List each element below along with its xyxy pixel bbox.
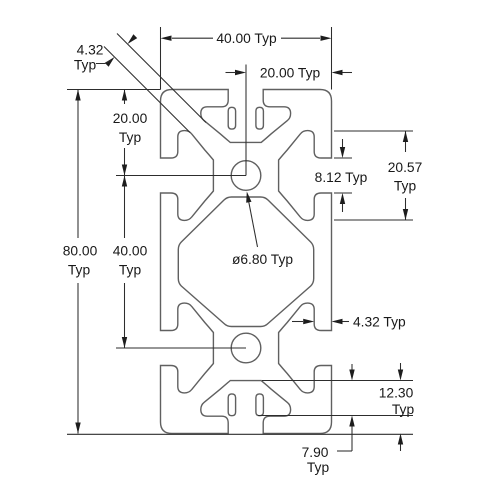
profile outline bbox=[161, 90, 332, 434]
center line bore top horizontal bbox=[116, 175, 246, 177]
svg-text:20.00: 20.00 bbox=[113, 111, 148, 126]
center line vertical bbox=[245, 65, 247, 176]
svg-text:12.30: 12.30 bbox=[379, 386, 414, 401]
slot tooth bottom B bbox=[256, 394, 264, 416]
svg-text:Typ: Typ bbox=[394, 179, 417, 194]
svg-text:4.32 Typ: 4.32 Typ bbox=[353, 314, 406, 329]
center line bore bottom horizontal bbox=[116, 347, 246, 349]
svg-text:Typ: Typ bbox=[68, 263, 91, 278]
dim 7.90 arrow lower bbox=[351, 427, 353, 452]
svg-text:8.12 Typ: 8.12 Typ bbox=[315, 170, 368, 185]
dim 20.00 top arrow left bbox=[235, 70, 246, 75]
dim 40.00 top line left bbox=[172, 37, 213, 39]
dim 40.00 top arrow right bbox=[321, 36, 332, 41]
extension line lip ledge bottom right bbox=[258, 415, 413, 417]
svg-text:Typ: Typ bbox=[74, 58, 97, 73]
bore hole top bbox=[231, 161, 261, 191]
svg-text:40.00: 40.00 bbox=[113, 244, 148, 259]
svg-text:40.00 Typ: 40.00 Typ bbox=[216, 31, 277, 46]
svg-text:80.00: 80.00 bbox=[63, 244, 98, 259]
dim 40.00 top arrow left bbox=[161, 36, 172, 41]
svg-text:7.90: 7.90 bbox=[302, 445, 329, 460]
extension line slot arm top right bbox=[334, 130, 413, 132]
dim 8.12 arrow upper bbox=[342, 139, 344, 147]
svg-text:Typ: Typ bbox=[119, 263, 142, 278]
dim 20.00 left arrow down bbox=[122, 165, 127, 176]
dim 20.57 line upper bbox=[405, 131, 407, 152]
dim 20.00 left arrow up bbox=[122, 90, 127, 101]
dim 12.30 arrow lower bbox=[400, 444, 402, 451]
dim 4.32 top arrow on B bbox=[128, 34, 138, 44]
dim 80.00 arrow down bbox=[75, 423, 80, 434]
dim 20.00 left line upper bbox=[124, 90, 126, 105]
dim 80.00 line lower bbox=[77, 283, 79, 434]
dim 7.90 arrow upper bbox=[351, 364, 353, 370]
extension line top-left corner x bbox=[160, 27, 162, 90]
dim 40.00 left line upper bbox=[124, 176, 126, 239]
svg-text:Typ: Typ bbox=[392, 402, 415, 417]
dim 4.32 right arrow right bbox=[342, 321, 349, 323]
bore hole bottom bbox=[231, 333, 261, 363]
svg-text:Typ: Typ bbox=[307, 460, 330, 475]
extension line bottom edge bbox=[67, 433, 413, 435]
dim 12.30 arrow upper bbox=[400, 363, 402, 370]
dim 4.32 right arrow left bbox=[292, 321, 303, 323]
extension line cavity flat bottom right bbox=[262, 380, 413, 382]
dim 20.00 left line lower bbox=[124, 148, 126, 176]
center cavity bbox=[178, 197, 313, 327]
dim 4.32 top leader bbox=[96, 60, 111, 64]
svg-text:20.00 Typ: 20.00 Typ bbox=[260, 65, 321, 80]
dim 40.00 left arrow up bbox=[122, 176, 127, 187]
extension line web edge A bbox=[104, 47, 190, 133]
svg-text:4.32: 4.32 bbox=[77, 43, 104, 58]
extension line slot opening top right bbox=[334, 157, 352, 159]
dim 20.00 top arrow right bbox=[332, 70, 343, 75]
dim 40.00 left arrow down bbox=[122, 337, 127, 348]
slot tooth top A bbox=[228, 107, 235, 129]
svg-text:20.57: 20.57 bbox=[388, 160, 423, 175]
dim 40.00 top line right bbox=[281, 37, 320, 39]
dim 20.57 line lower bbox=[405, 198, 407, 220]
svg-text:Typ: Typ bbox=[119, 130, 142, 145]
dim 80.00 line upper bbox=[77, 90, 79, 239]
dim 80.00 arrow up bbox=[75, 90, 80, 101]
dim 20.57 arrow up bbox=[403, 131, 408, 142]
dim 7.90 leader bbox=[337, 450, 352, 452]
slot tooth top B bbox=[256, 107, 264, 129]
extension line top edge left bbox=[67, 89, 161, 91]
dim 20.57 arrow down bbox=[403, 209, 408, 220]
dim 8.12 arrow lower bbox=[342, 204, 344, 212]
dim 4.32 top arrow on A bbox=[105, 57, 115, 67]
extension line slot opening bottom right bbox=[334, 192, 352, 194]
extension line top-right corner x bbox=[331, 27, 333, 90]
leader hole diameter bbox=[248, 199, 257, 247]
svg-text:ø6.80 Typ: ø6.80 Typ bbox=[232, 252, 293, 267]
slot tooth bottom A bbox=[228, 394, 235, 416]
extension line web edge B bbox=[117, 34, 206, 123]
extension line slot arm bottom right bbox=[334, 219, 413, 221]
dim 40.00 left line lower bbox=[124, 283, 126, 348]
